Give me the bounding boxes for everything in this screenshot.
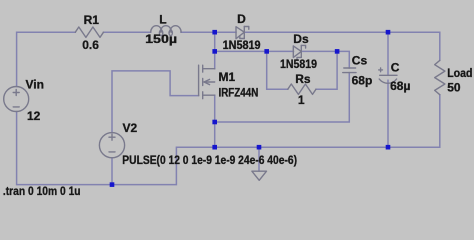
svg-text:V2: V2 — [123, 121, 138, 135]
svg-text:R1: R1 — [84, 13, 100, 27]
svg-text:IRFZ44N: IRFZ44N — [219, 85, 259, 99]
svg-text:68µ: 68µ — [390, 79, 410, 93]
svg-text:12: 12 — [27, 109, 41, 123]
svg-text:M1: M1 — [219, 70, 236, 84]
svg-text:1N5819: 1N5819 — [280, 57, 317, 71]
svg-text:68p: 68p — [352, 74, 373, 88]
svg-text:150µ: 150µ — [145, 32, 177, 46]
svg-text:.tran 0 10m 0 1u: .tran 0 10m 0 1u — [3, 184, 81, 198]
svg-text:Ds: Ds — [293, 32, 309, 46]
svg-text:0.6: 0.6 — [82, 38, 99, 52]
svg-text:D: D — [237, 12, 246, 26]
svg-text:Rs: Rs — [295, 72, 311, 86]
svg-text:Load: Load — [447, 66, 472, 80]
svg-text:L: L — [159, 12, 166, 26]
svg-text:PULSE(0 12 0 1e-9 1e-9 24e-6 4: PULSE(0 12 0 1e-9 1e-9 24e-6 40e-6) — [122, 153, 297, 167]
svg-text:50: 50 — [447, 80, 461, 94]
svg-text:Vin: Vin — [26, 77, 44, 91]
svg-text:1N5819: 1N5819 — [223, 38, 261, 52]
svg-text:C: C — [391, 61, 400, 75]
svg-text:1: 1 — [298, 93, 305, 107]
svg-text:Cs: Cs — [352, 53, 368, 67]
